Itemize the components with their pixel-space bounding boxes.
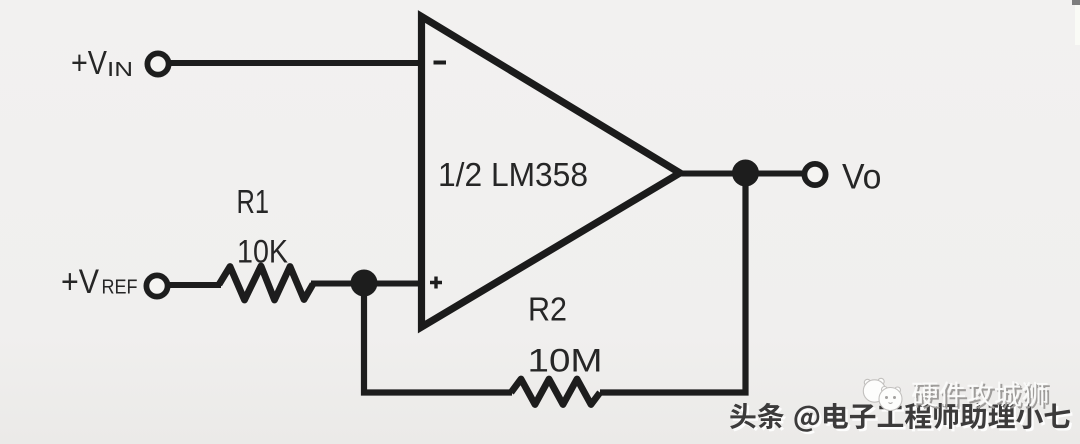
svg-text:1/2 LM358: 1/2 LM358	[438, 156, 588, 193]
svg-text:+V: +V	[71, 44, 107, 81]
svg-text:10K: 10K	[237, 234, 288, 270]
svg-text:IN: IN	[107, 59, 133, 81]
svg-text:Vo: Vo	[842, 158, 882, 197]
svg-text:10M: 10M	[528, 343, 603, 379]
svg-text:REF: REF	[102, 277, 138, 299]
svg-text:R2: R2	[528, 291, 567, 328]
svg-text:R1: R1	[237, 183, 270, 220]
svg-text:+V: +V	[61, 263, 99, 301]
